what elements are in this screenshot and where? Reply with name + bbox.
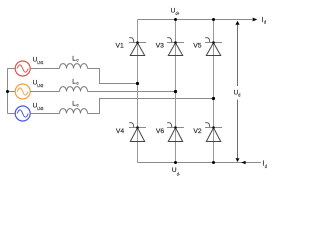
- label L_c (phase 1): [72, 55, 79, 62]
- node: phase3 feed on leg3: [212, 97, 215, 100]
- label L_c (phase 2): [72, 79, 79, 86]
- svg-text:V4: V4: [116, 128, 125, 135]
- svg-text:V1: V1: [115, 43, 124, 50]
- label L_c (phase 3): [72, 101, 79, 108]
- svg-text:V3: V3: [156, 43, 165, 50]
- svg-text:c: c: [76, 58, 78, 63]
- thyristor V6: [167, 123, 184, 142]
- wire: stub to source 3: [8, 113, 16, 115]
- thyristor V5: [205, 38, 222, 56]
- wire: inductor La to bridge leg 1: [88, 69, 138, 84]
- node: leg2 on positive bus: [174, 18, 177, 21]
- source U_LN3: [15, 106, 30, 121]
- svg-text:d: d: [265, 164, 268, 169]
- voltage arrow U_d (double-headed, right side): [235, 21, 239, 162]
- inductor La: [60, 64, 88, 69]
- wire: bridge leg 2 vertical: [175, 20, 177, 163]
- label U_LN2: [33, 80, 44, 89]
- node: leg3 on negative bus: [212, 161, 215, 164]
- label U_d+: [171, 8, 181, 16]
- svg-text:c: c: [76, 103, 78, 108]
- node: leg3 on positive bus: [212, 18, 215, 21]
- node N (star point junction): [6, 90, 9, 93]
- svg-text:c: c: [76, 81, 78, 86]
- thyristor V2: [205, 123, 222, 142]
- svg-text:LN1: LN1: [37, 60, 44, 65]
- inductor Lc: [60, 109, 88, 114]
- label I_d (top): [262, 17, 267, 25]
- source U_LN2: [15, 84, 30, 99]
- svg-text:V6: V6: [156, 128, 165, 135]
- svg-text:d+: d+: [176, 11, 181, 16]
- label U_LN1: [33, 57, 44, 66]
- svg-text:d-: d-: [177, 171, 181, 176]
- node: phase1 feed on leg1: [136, 82, 139, 85]
- svg-text:V2: V2: [193, 128, 202, 135]
- svg-text:V5: V5: [193, 43, 202, 50]
- wire: stub to source 2: [8, 91, 16, 93]
- wire: positive DC bus: [138, 19, 253, 21]
- wire: source 3 to inductor Lc: [30, 113, 59, 115]
- wire: left phase bus vertical: [7, 69, 9, 114]
- svg-text:LN2: LN2: [37, 83, 44, 88]
- wire: bridge leg 3 vertical: [213, 20, 215, 163]
- label U_LN3: [33, 102, 44, 111]
- wire: inductor Lb to bridge leg 2: [88, 91, 176, 93]
- thyristor V1: [129, 38, 146, 56]
- wire: inductor Lc to bridge leg 3: [88, 99, 214, 114]
- arrow I_d (bottom, current return): [241, 161, 245, 164]
- source U_LN1: [15, 61, 30, 76]
- label I_d (bottom): [262, 161, 267, 169]
- wire: source 2 to inductor Lb: [30, 91, 59, 93]
- wire: source 1 to inductor La: [30, 68, 59, 70]
- node: leg2 on negative bus: [174, 161, 177, 164]
- svg-text:LN3: LN3: [37, 106, 44, 111]
- wire: negative DC bus: [138, 162, 262, 164]
- label U_d: [234, 90, 241, 98]
- svg-text:d: d: [238, 92, 241, 97]
- node: phase2 feed on leg2: [174, 90, 177, 93]
- thyristor V4: [129, 123, 146, 142]
- inductor Lb: [60, 87, 88, 92]
- label U_d-: [172, 167, 181, 176]
- thyristor V3: [167, 38, 184, 56]
- wire: bridge leg 1 vertical: [137, 20, 139, 163]
- svg-text:d: d: [264, 20, 267, 25]
- arrow I_d (top, current out): [253, 18, 258, 22]
- wire: stub to source 1: [8, 68, 16, 70]
